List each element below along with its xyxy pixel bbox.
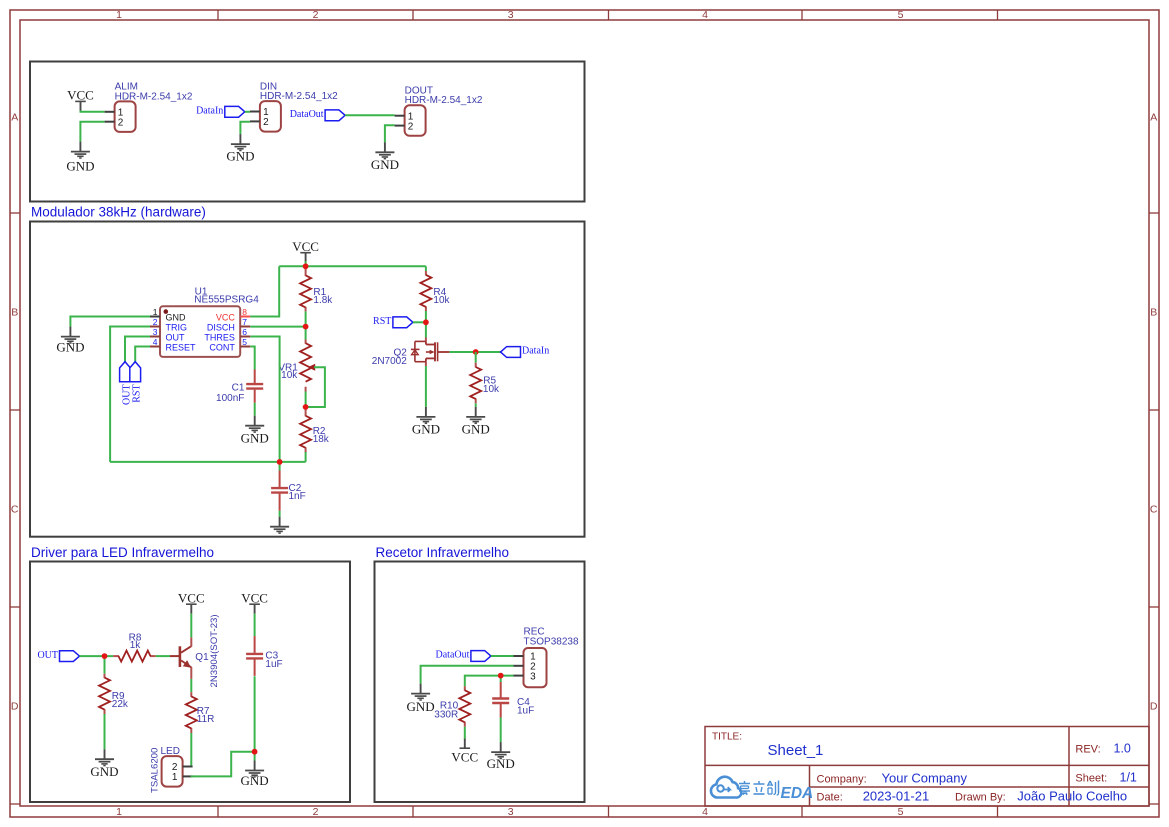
svg-text:1.0: 1.0 (1114, 742, 1131, 756)
svg-text:Q1: Q1 (195, 652, 209, 663)
svg-text:2: 2 (118, 117, 124, 128)
svg-text:4: 4 (153, 337, 158, 347)
svg-text:1k: 1k (130, 640, 142, 651)
svg-text:Company:: Company: (817, 773, 867, 785)
svg-text:TSAL6200: TSAL6200 (150, 748, 161, 793)
svg-text:VCC: VCC (67, 88, 94, 103)
svg-text:VCC: VCC (216, 313, 236, 323)
svg-text:GND: GND (56, 340, 84, 355)
svg-text:8: 8 (242, 307, 247, 317)
svg-text:VCC: VCC (292, 239, 319, 254)
svg-text:DataOut: DataOut (290, 109, 324, 120)
svg-text:RST: RST (132, 384, 143, 402)
svg-text:1.8k: 1.8k (313, 295, 333, 306)
svg-text:HDR-M-2.54_1x2: HDR-M-2.54_1x2 (405, 95, 483, 106)
svg-text:2N7002: 2N7002 (372, 356, 407, 367)
svg-text:1: 1 (153, 307, 158, 317)
svg-text:B: B (11, 306, 18, 318)
svg-text:5: 5 (898, 9, 904, 21)
svg-text:CONT: CONT (209, 343, 235, 353)
svg-text:GND: GND (66, 159, 94, 174)
svg-text:10k: 10k (483, 384, 500, 395)
svg-text:B: B (1150, 306, 1157, 318)
svg-text:HDR-M-2.54_1x2: HDR-M-2.54_1x2 (260, 91, 338, 102)
svg-text:2: 2 (263, 117, 269, 128)
svg-text:A: A (1150, 111, 1157, 123)
svg-text:D: D (11, 700, 19, 712)
svg-text:3: 3 (530, 671, 536, 682)
svg-text:Drawn By:: Drawn By: (955, 792, 1006, 804)
svg-text:4: 4 (702, 806, 708, 818)
svg-text:2: 2 (313, 9, 319, 21)
svg-text:Recetor Infravermelho: Recetor Infravermelho (376, 545, 510, 560)
svg-text:TITLE:: TITLE: (712, 732, 742, 743)
svg-text:João Paulo Coelho: João Paulo Coelho (1017, 789, 1127, 804)
svg-text:DataIn: DataIn (522, 346, 549, 357)
svg-text:GND: GND (462, 422, 490, 437)
svg-text:3: 3 (153, 327, 158, 337)
svg-text:OUT: OUT (37, 650, 58, 661)
svg-text:Sheet_1: Sheet_1 (768, 742, 824, 759)
svg-text:5: 5 (898, 806, 904, 818)
svg-text:D: D (1150, 700, 1158, 712)
svg-text:Driver para LED Infravermelho: Driver para LED Infravermelho (31, 545, 214, 560)
svg-text:1uF: 1uF (265, 659, 282, 670)
svg-text:Modulador 38kHz (hardware): Modulador 38kHz (hardware) (31, 205, 206, 220)
svg-text:REV:: REV: (1075, 744, 1100, 756)
svg-text:OUT: OUT (166, 333, 186, 343)
svg-text:1uF: 1uF (517, 705, 534, 716)
svg-text:22k: 22k (112, 699, 129, 710)
svg-text:GND: GND (241, 430, 269, 445)
svg-text:2: 2 (313, 806, 319, 818)
svg-text:TSOP38238: TSOP38238 (524, 637, 579, 648)
svg-text:GND: GND (166, 313, 187, 323)
svg-text:1nF: 1nF (289, 491, 306, 502)
svg-text:Date:: Date: (817, 792, 843, 804)
svg-text:A: A (11, 111, 18, 123)
svg-text:THRES: THRES (204, 333, 235, 343)
svg-text:EDA: EDA (781, 785, 814, 802)
svg-text:Sheet:: Sheet: (1075, 772, 1107, 784)
svg-text:RST: RST (373, 316, 391, 327)
svg-text:VCC: VCC (178, 591, 205, 606)
svg-text:DataOut: DataOut (436, 650, 470, 661)
svg-text:1: 1 (116, 9, 122, 21)
svg-text:2: 2 (153, 317, 158, 327)
svg-text:NE555PSRG4: NE555PSRG4 (194, 295, 259, 306)
svg-text:1/1: 1/1 (1120, 770, 1137, 784)
svg-text:4: 4 (702, 9, 708, 21)
svg-text:VCC: VCC (241, 591, 268, 606)
svg-text:3: 3 (508, 806, 514, 818)
svg-text:C: C (11, 503, 19, 515)
svg-text:GND: GND (90, 764, 118, 779)
svg-text:2N3904(SOT-23): 2N3904(SOT-23) (209, 614, 220, 687)
svg-text:11R: 11R (197, 714, 215, 725)
svg-text:Your Company: Your Company (882, 770, 968, 785)
svg-text:RESET: RESET (166, 343, 197, 353)
svg-text:10k: 10k (281, 370, 298, 381)
svg-text:1: 1 (116, 806, 122, 818)
svg-text:3: 3 (508, 9, 514, 21)
svg-text:2: 2 (408, 121, 414, 132)
svg-text:5: 5 (242, 337, 247, 347)
svg-text:GND: GND (407, 699, 435, 714)
svg-text:18k: 18k (313, 434, 330, 445)
svg-text:TRIG: TRIG (166, 323, 188, 333)
svg-text:2023-01-21: 2023-01-21 (863, 789, 930, 804)
svg-text:7: 7 (242, 317, 247, 327)
svg-text:DataIn: DataIn (196, 106, 223, 117)
svg-text:10k: 10k (433, 295, 450, 306)
svg-text:1: 1 (172, 772, 178, 783)
svg-text:DISCH: DISCH (207, 323, 235, 333)
svg-text:330R: 330R (434, 710, 458, 721)
svg-text:GND: GND (487, 756, 515, 771)
svg-text:6: 6 (242, 327, 247, 337)
svg-text:VCC: VCC (451, 749, 478, 764)
svg-text:LED: LED (161, 746, 180, 757)
svg-text:GND: GND (412, 422, 440, 437)
svg-text:C: C (1150, 503, 1158, 515)
svg-text:GND: GND (241, 773, 269, 788)
svg-text:HDR-M-2.54_1x2: HDR-M-2.54_1x2 (115, 91, 193, 102)
svg-text:100nF: 100nF (216, 393, 244, 404)
svg-text:GND: GND (226, 149, 254, 164)
svg-text:GND: GND (371, 157, 399, 172)
